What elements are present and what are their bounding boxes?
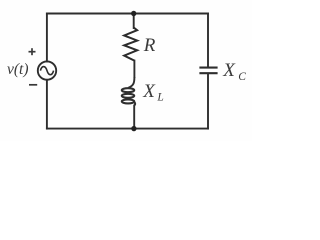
capacitor XC (199, 68, 217, 74)
voltage source U1 v(t) (38, 61, 56, 79)
wire top (47, 13, 208, 15)
wire right upper (207, 14, 209, 67)
svg-text:R: R (143, 35, 156, 56)
inductor XL (122, 77, 135, 106)
plus polarity mark (29, 48, 36, 55)
svg-text:X: X (142, 81, 156, 102)
node junction dot top (131, 11, 136, 16)
wire bottom (47, 128, 208, 130)
svg-text:L: L (156, 91, 163, 103)
minus polarity mark (29, 84, 37, 86)
wire between resistor and inductor (133, 61, 135, 77)
wire right lower (207, 75, 209, 129)
node junction dot bottom (131, 126, 136, 131)
wire left upper (46, 14, 48, 62)
svg-text:v(t): v(t) (7, 61, 29, 78)
wire middle upper stub (133, 14, 135, 29)
wire middle lower stub (133, 106, 135, 129)
svg-text:X: X (222, 60, 236, 81)
svg-text:C: C (238, 71, 246, 83)
wire left lower (46, 80, 48, 129)
resistor R (124, 28, 137, 61)
